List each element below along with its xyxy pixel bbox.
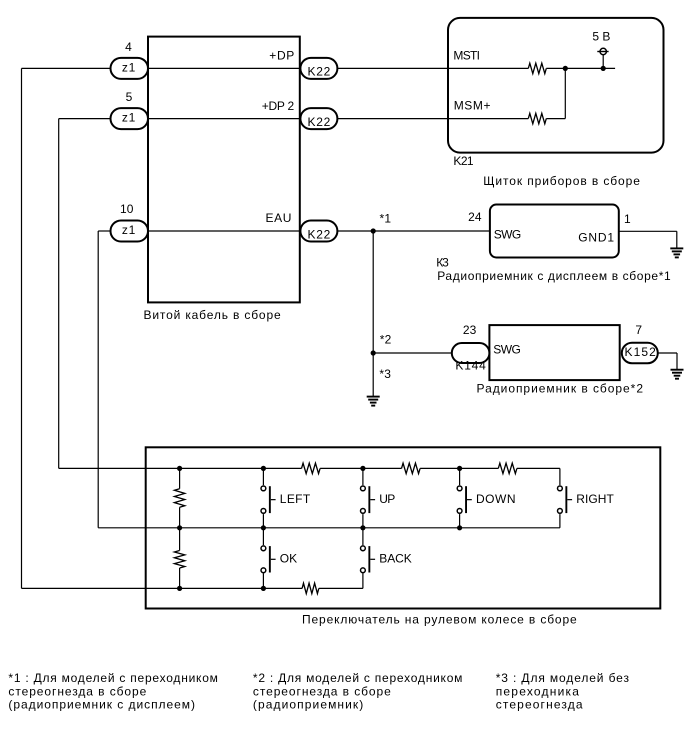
resistor top rail 3 xyxy=(498,463,517,473)
svg-text:K22: K22 xyxy=(307,115,330,129)
svg-text:*3 : Для моделей без: *3 : Для моделей без xyxy=(496,671,630,685)
wire MSTI to resistor xyxy=(448,67,528,69)
resistor on MSM+ line xyxy=(528,113,546,123)
pushbutton UP xyxy=(362,468,364,485)
connector K22 (row 1) xyxy=(300,58,337,79)
svg-text:стереогнезда: стереогнезда xyxy=(496,698,583,712)
wire top rail seg2 xyxy=(320,467,401,469)
wire MSM+ resistor to junction xyxy=(546,118,565,120)
ground (K3 GND1) xyxy=(670,247,683,249)
svg-text:UP: UP xyxy=(379,492,395,506)
wire z1 pin4 stub xyxy=(22,67,111,69)
svg-text:24: 24 xyxy=(468,210,482,224)
svg-text:(радиоприемник): (радиоприемник) xyxy=(253,698,363,712)
radio block "Радиоприемник в сборе" xyxy=(489,325,619,380)
svg-text:переходника: переходника xyxy=(496,684,580,698)
svg-text:SWG: SWG xyxy=(493,343,521,357)
junction mid rail x=179.6 xyxy=(177,525,182,530)
svg-text:5: 5 xyxy=(126,90,133,104)
resistor on MSTI line xyxy=(528,63,546,73)
wire pin5 left drop xyxy=(58,119,60,469)
svg-text:(радиоприемник с дисплеем): (радиоприемник с дисплеем) xyxy=(8,698,195,712)
junction top rail x=179.6 xyxy=(177,466,182,471)
wire EAU inside cable box xyxy=(148,230,300,232)
instrument panel block K21 xyxy=(448,18,664,153)
svg-text:*3: *3 xyxy=(379,367,391,381)
wire top rail seg3 xyxy=(420,467,498,469)
wire top rail seg1 xyxy=(59,467,302,469)
svg-text:K21: K21 xyxy=(453,154,474,168)
svg-text:BACK: BACK xyxy=(379,551,411,565)
connector K144 xyxy=(452,343,490,363)
junction mid rail x=362.9 xyxy=(360,525,365,530)
svg-text:Радиоприемник в сборе*2: Радиоприемник в сборе*2 xyxy=(477,381,644,395)
wire bottom rail seg2 xyxy=(319,587,363,589)
svg-text:7: 7 xyxy=(635,323,642,337)
junction MSTI/MSM+ xyxy=(563,66,568,71)
junction top rail x=459.6 xyxy=(457,466,462,471)
svg-text:LEFT: LEFT xyxy=(280,492,311,506)
connector K22 (row 2) xyxy=(300,108,337,129)
wire mid rail xyxy=(98,527,560,529)
resistor ladder lower xyxy=(179,528,181,551)
svg-text:стереогнезда в сборе: стереогнезда в сборе xyxy=(253,684,391,698)
svg-text:*1 : Для моделей с переходнико: *1 : Для моделей с переходником xyxy=(8,671,218,685)
svg-text:1: 1 xyxy=(624,212,631,226)
svg-text:Радиоприемник с дисплеем в сбо: Радиоприемник с дисплеем в сборе*1 xyxy=(437,269,671,283)
pushbutton RIGHT xyxy=(559,468,561,485)
svg-text:EAU: EAU xyxy=(266,211,292,225)
svg-text:z1: z1 xyxy=(122,111,136,125)
junction top rail x=362.9 xyxy=(360,466,365,471)
wire *1 to *2 xyxy=(372,231,374,353)
connector z1 pin 5 xyxy=(111,108,149,129)
svg-text:SWG: SWG xyxy=(494,228,522,242)
junction top rail x=263.4 xyxy=(261,466,266,471)
svg-text:K22: K22 xyxy=(307,227,330,241)
wire K22 +DP2 to K21 MSM+ xyxy=(300,118,448,120)
svg-text:К3: К3 xyxy=(436,256,449,270)
wire junction vertical xyxy=(564,68,566,118)
svg-text:z1: z1 xyxy=(122,61,136,75)
wire pin4 left drop xyxy=(21,68,23,588)
connector z1 pin 4 xyxy=(111,58,149,79)
svg-text:4: 4 xyxy=(125,40,132,54)
wire top rail seg4 xyxy=(517,467,560,469)
svg-text:Переключатель на рулевом колес: Переключатель на рулевом колесе в сборе xyxy=(302,613,577,627)
wire K22 +DP to K21 MSTI xyxy=(300,67,448,69)
connector K152 xyxy=(622,343,658,364)
resistor top rail 2 xyxy=(402,463,421,473)
svg-text:*1: *1 xyxy=(380,211,392,225)
svg-text:GND1: GND1 xyxy=(578,230,614,244)
svg-text:+DP: +DP xyxy=(269,49,294,63)
steering switch block xyxy=(146,447,661,608)
wire z1 pin5 stub xyxy=(59,118,111,120)
svg-text:23: 23 xyxy=(463,323,477,337)
power symbol 5V xyxy=(600,48,606,54)
svg-text:Щиток приборов в сборе: Щиток приборов в сборе xyxy=(483,174,640,188)
svg-text:OK: OK xyxy=(280,551,297,565)
svg-text:RIGHT: RIGHT xyxy=(576,492,614,506)
svg-text:стереогнезда в сборе: стереогнезда в сборе xyxy=(8,684,146,698)
connector z1 pin 10 xyxy=(111,221,149,242)
svg-text:MSTI: MSTI xyxy=(453,48,480,62)
pushbutton LEFT xyxy=(262,468,264,485)
node *1 junction xyxy=(371,228,376,233)
ground (K152) xyxy=(671,369,684,371)
svg-text:DOWN: DOWN xyxy=(476,492,516,506)
wire MSM+ to resistor xyxy=(448,118,528,120)
radio-with-display block K3 xyxy=(490,205,619,258)
pushbutton BACK xyxy=(362,528,364,545)
svg-text:z1: z1 xyxy=(122,223,136,237)
wire pin10 left drop xyxy=(97,231,99,528)
wire MSTI resistor to 5V rail xyxy=(546,67,615,69)
wire *2 to ground xyxy=(372,353,374,397)
resistor ladder upper xyxy=(179,468,181,488)
wire bottom rail seg1 xyxy=(22,587,303,589)
wire z1 pin10 stub xyxy=(98,230,110,232)
svg-text:K144: K144 xyxy=(455,358,486,372)
wire GND1 to ground xyxy=(619,230,677,232)
svg-text:*2 : Для моделей с переходнико: *2 : Для моделей с переходником xyxy=(253,671,463,685)
svg-text:Витой кабель в сборе: Витой кабель в сборе xyxy=(144,308,281,322)
svg-text:MSM+: MSM+ xyxy=(454,99,491,113)
connector K22 (row 3) xyxy=(300,221,337,242)
resistor top rail 1 xyxy=(302,463,321,473)
junction mid rail x=459.6 xyxy=(457,525,462,530)
wire +DP inside cable box xyxy=(148,67,300,69)
junction bottom rail x=263.4 xyxy=(261,586,266,591)
pushbutton OK xyxy=(262,528,264,545)
junction 5V tap xyxy=(601,66,606,71)
resistor bottom rail xyxy=(302,583,319,593)
ground (*3) xyxy=(367,396,380,398)
svg-text:+DP 2: +DP 2 xyxy=(262,99,295,113)
junction bottom rail x=179.6 xyxy=(177,586,182,591)
junction mid rail x=263.4 xyxy=(261,525,266,530)
connector-cable block "Витой кабель в сборе" xyxy=(148,37,300,303)
wire K22 EAU to K3 SWG xyxy=(300,230,490,232)
node *2 junction xyxy=(371,350,376,355)
wire *2 to K144 xyxy=(373,352,452,354)
svg-text:K22: K22 xyxy=(307,65,330,79)
svg-text:10: 10 xyxy=(120,202,134,216)
wire K152 to ground xyxy=(658,352,677,354)
wire +DP2 inside cable box xyxy=(148,118,300,120)
svg-text:5 В: 5 В xyxy=(592,30,610,44)
svg-text:*2: *2 xyxy=(380,333,392,347)
pushbutton DOWN xyxy=(459,468,461,485)
